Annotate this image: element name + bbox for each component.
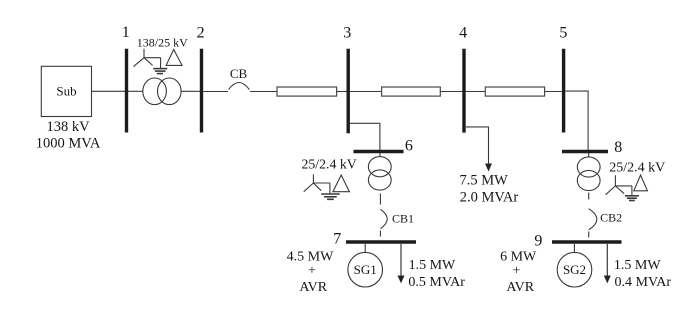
svg-text:SG2: SG2	[563, 262, 586, 277]
svg-text:1.5 MW: 1.5 MW	[409, 258, 456, 273]
bus 3	[347, 49, 350, 134]
bus 1	[125, 49, 128, 133]
bus 9	[552, 240, 622, 243]
wire Sub to bus 1	[92, 90, 126, 92]
stub bus 8 to transformer T3	[588, 153, 590, 158]
circuit breaker CB	[229, 83, 250, 90]
stub bus 7 to SG1	[364, 244, 366, 253]
svg-text:9: 9	[534, 232, 542, 249]
load arrow at bus 7	[400, 244, 402, 277]
transformer T3	[577, 157, 600, 191]
wire bus 1 to transformer T1	[128, 90, 143, 92]
svg-text:6 MW: 6 MW	[500, 250, 537, 265]
svg-text:25/2.4 kV: 25/2.4 kV	[609, 160, 665, 175]
transmission line L1	[277, 87, 337, 96]
wire bus 4 to line L3	[466, 91, 486, 93]
svg-text:CB2: CB2	[600, 211, 622, 225]
wye-ground symbol T1	[134, 49, 168, 74]
wire bus 3 to line L2	[350, 91, 382, 93]
generator SG2	[557, 252, 592, 287]
svg-text:1000 MVA: 1000 MVA	[36, 135, 101, 151]
svg-text:138 kV: 138 kV	[46, 119, 90, 135]
svg-text:7.5 MW: 7.5 MW	[460, 172, 509, 188]
wire CB to line L1	[250, 91, 277, 93]
wire L2 to bus 4	[440, 91, 462, 93]
wye-ground symbol T2	[304, 174, 340, 199]
svg-text:6: 6	[405, 137, 413, 154]
svg-text:4.5 MW: 4.5 MW	[287, 250, 334, 265]
svg-text:1.5 MW: 1.5 MW	[614, 258, 661, 273]
svg-text:+: +	[513, 264, 521, 279]
svg-text:CB1: CB1	[392, 212, 414, 226]
svg-text:138/25 kV: 138/25 kV	[137, 36, 188, 50]
bus 2	[200, 49, 203, 133]
bus 7	[346, 240, 416, 243]
svg-text:25/2.4 kV: 25/2.4 kV	[302, 156, 357, 171]
wire bus 5 to bus 8 (elbow)	[565, 91, 588, 150]
load arrowhead bus 4	[485, 164, 492, 172]
bus 5	[562, 49, 565, 133]
dashed feeder with CB2	[589, 193, 597, 238]
svg-text:0.4 MVAr: 0.4 MVAr	[615, 275, 672, 290]
wire L1 to bus 3	[337, 91, 347, 93]
stub bus 9 to SG2	[573, 244, 575, 253]
svg-text:3: 3	[343, 24, 351, 41]
load arrow at bus 9	[606, 244, 608, 277]
svg-text:AVR: AVR	[506, 280, 534, 295]
bus 4	[462, 49, 465, 133]
svg-text:2: 2	[197, 24, 205, 41]
svg-text:CB: CB	[230, 66, 248, 81]
circuit breaker CB2	[589, 209, 597, 230]
circuit breaker CB1	[380, 209, 387, 228]
generator SG1	[348, 252, 383, 287]
bus 8	[562, 150, 608, 153]
delta symbol T2	[333, 175, 350, 192]
svg-text:+: +	[308, 264, 316, 279]
load elbow at bus 4	[466, 127, 489, 165]
dashed feeder with CB1	[380, 194, 387, 237]
bus 6	[354, 150, 404, 153]
svg-text:5: 5	[559, 24, 567, 41]
transmission line L3	[485, 87, 544, 96]
stub bus 6 to transformer T2	[379, 153, 381, 157]
svg-text:7: 7	[333, 231, 341, 248]
svg-text:2.0 MVAr: 2.0 MVAr	[460, 189, 519, 205]
substation Sub box	[41, 66, 91, 116]
wye-ground symbol T3	[606, 175, 639, 200]
wire bus 3 to bus 6 (elbow)	[350, 123, 380, 150]
delta symbol T1	[166, 50, 182, 66]
svg-text:AVR: AVR	[299, 280, 327, 295]
svg-text:SG1: SG1	[354, 262, 377, 277]
transformer T2	[368, 157, 391, 191]
transformer T1	[143, 78, 181, 105]
svg-text:0.5 MVAr: 0.5 MVAr	[408, 275, 465, 290]
delta symbol T3	[634, 175, 648, 191]
wire bus 2 to CB	[203, 91, 228, 93]
svg-text:4: 4	[459, 24, 467, 41]
wire T1 to bus 2	[181, 90, 200, 92]
transmission line L2	[382, 87, 441, 96]
svg-text:1: 1	[122, 24, 130, 41]
wire L3 to bus 5	[545, 91, 562, 93]
svg-text:Sub: Sub	[56, 84, 76, 99]
svg-text:8: 8	[614, 139, 622, 156]
